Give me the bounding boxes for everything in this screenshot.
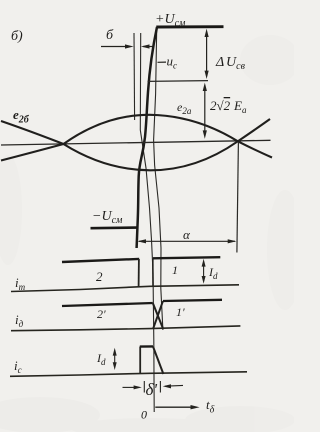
ic pulse slanted falling edge xyxy=(153,347,163,375)
ic baseline xyxy=(10,372,247,377)
iд baseline xyxy=(11,326,240,331)
vertical from right crossing xyxy=(237,142,239,253)
iт pulse 1 top xyxy=(153,257,221,258)
dimension б right arrow xyxy=(141,44,155,48)
vertical guide S1 (left boundary of б) xyxy=(133,33,136,120)
svg-text:2√2: 2√2 xyxy=(210,98,231,113)
svg-text:1: 1 xyxy=(172,263,178,277)
svg-text:б): б) xyxy=(11,29,23,44)
time axis of sine region xyxy=(1,140,271,145)
dimension arrow Id (iт) xyxy=(202,259,206,284)
iт pulse 2 falling edge xyxy=(138,259,140,287)
curve uc (control voltage S-curve) xyxy=(137,27,157,248)
dimension δ' left arrow xyxy=(123,385,142,389)
iт pulse 2 top xyxy=(62,259,139,262)
dimension δ' right arrow xyxy=(163,384,183,388)
ic pulse top xyxy=(140,345,153,348)
dimension arrow Id (ic) xyxy=(113,348,117,370)
svg-text:Δ: Δ xyxy=(215,55,224,70)
iд commutation falling stroke xyxy=(153,303,163,328)
top level line +Uсм xyxy=(156,25,223,28)
svg-text:б: б xyxy=(106,28,114,43)
iд diode 2' top xyxy=(62,303,153,306)
svg-text:δ': δ' xyxy=(146,380,158,399)
svg-text:α: α xyxy=(183,227,191,242)
iт baseline xyxy=(11,285,239,292)
svg-text:2: 2 xyxy=(96,269,103,284)
iд commutation rising stroke xyxy=(153,301,163,328)
time axis arrow tδ xyxy=(155,405,199,409)
sine е2б (dipping down) xyxy=(1,119,270,170)
sine е2а (peaking up) xyxy=(1,115,272,161)
vertical guide LV1 (right boundary of б, long wobbly vertical to bottom axis) xyxy=(140,33,154,412)
svg-text:2': 2' xyxy=(97,307,106,321)
dimension arrow ΔUсв xyxy=(205,29,209,79)
dimension arrow 2√2Ea xyxy=(203,83,207,139)
dimension α line with arrows xyxy=(137,239,236,243)
iд diode 1' top xyxy=(163,300,222,301)
svg-text:1': 1' xyxy=(176,305,185,319)
dimension δ' left tick xyxy=(143,381,145,393)
label uc with leader xyxy=(158,61,167,63)
level line −Uсм xyxy=(91,226,137,229)
reference level line (peak level) xyxy=(148,80,209,83)
svg-text:0: 0 xyxy=(141,408,147,422)
dimension б left arrow xyxy=(101,44,134,48)
vertical guide LV3 (commutation right boundary) xyxy=(154,29,163,331)
ic pulse rising edge xyxy=(139,347,141,374)
iт pulse 1 rising edge xyxy=(152,259,154,287)
dimension δ' right tick xyxy=(159,381,161,393)
